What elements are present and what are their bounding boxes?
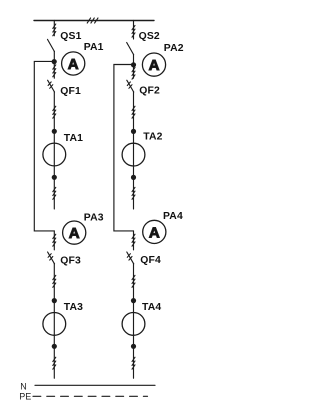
svg-text:TA2: TA2	[143, 132, 162, 143]
svg-text:QF2: QF2	[139, 85, 160, 96]
svg-text:A: A	[149, 224, 160, 241]
svg-text:PA4: PA4	[163, 211, 183, 222]
svg-text:PA3: PA3	[84, 212, 104, 223]
svg-text:A: A	[68, 56, 79, 73]
svg-text:N: N	[20, 382, 27, 392]
svg-text:QF3: QF3	[60, 256, 81, 267]
svg-text:TA3: TA3	[64, 302, 83, 313]
svg-text:TA4: TA4	[142, 302, 161, 313]
svg-text:PE: PE	[19, 392, 31, 402]
svg-text:QF4: QF4	[140, 255, 161, 266]
svg-text:QS1: QS1	[60, 31, 81, 42]
svg-text:QF1: QF1	[60, 86, 81, 97]
svg-text:A: A	[149, 57, 160, 74]
svg-text:QS2: QS2	[139, 31, 160, 42]
svg-text:TA1: TA1	[64, 133, 83, 144]
svg-text:PA1: PA1	[84, 42, 104, 53]
svg-text:PA2: PA2	[164, 43, 184, 54]
svg-text:A: A	[69, 225, 80, 242]
